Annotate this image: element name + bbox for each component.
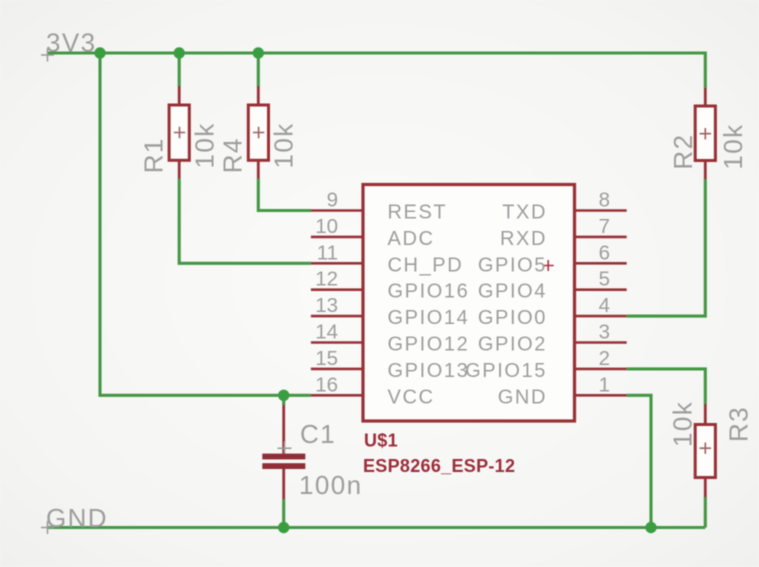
- svg-text:6: 6: [599, 241, 610, 264]
- svg-text:10: 10: [315, 215, 338, 238]
- svg-text:2: 2: [599, 347, 610, 370]
- svg-text:CH_PD: CH_PD: [388, 254, 464, 276]
- svg-text:REST: REST: [388, 202, 448, 224]
- svg-text:R4: R4: [218, 137, 248, 173]
- svg-text:13: 13: [315, 294, 338, 317]
- svg-text:9: 9: [327, 189, 338, 212]
- svg-text:GPIO4: GPIO4: [478, 281, 547, 303]
- svg-text:100n: 100n: [299, 470, 362, 500]
- svg-text:5: 5: [599, 268, 610, 291]
- svg-text:ADC: ADC: [388, 228, 435, 250]
- svg-text:RXD: RXD: [500, 228, 547, 250]
- svg-text:GPIO2: GPIO2: [478, 334, 547, 356]
- svg-text:15: 15: [315, 347, 338, 370]
- svg-text:GPIO5: GPIO5: [478, 254, 547, 276]
- svg-text:1: 1: [599, 373, 610, 396]
- svg-text:GND: GND: [46, 503, 108, 533]
- svg-text:3: 3: [599, 321, 610, 344]
- svg-text:7: 7: [599, 215, 610, 238]
- svg-text:10k: 10k: [668, 401, 698, 447]
- svg-text:R3: R3: [723, 406, 753, 442]
- svg-text:GPIO12: GPIO12: [388, 334, 470, 356]
- svg-text:4: 4: [599, 294, 610, 317]
- svg-text:11: 11: [317, 241, 338, 264]
- svg-text:GPIO0: GPIO0: [478, 307, 547, 329]
- svg-text:R1: R1: [139, 137, 169, 173]
- svg-text:R2: R2: [668, 134, 698, 170]
- svg-text:8: 8: [599, 189, 610, 212]
- svg-text:VCC: VCC: [388, 386, 435, 408]
- svg-text:10k: 10k: [269, 122, 299, 168]
- svg-text:16: 16: [315, 373, 338, 396]
- svg-text:GPIO15: GPIO15: [465, 360, 547, 382]
- svg-text:GND: GND: [498, 386, 547, 408]
- svg-text:GPIO16: GPIO16: [388, 281, 470, 303]
- svg-text:10k: 10k: [190, 122, 220, 168]
- svg-text:14: 14: [315, 321, 338, 344]
- svg-text:ESP8266_ESP-12: ESP8266_ESP-12: [363, 456, 515, 476]
- svg-text:3V3: 3V3: [46, 27, 96, 57]
- svg-text:GPIO13: GPIO13: [388, 360, 470, 382]
- svg-text:10k: 10k: [718, 123, 748, 169]
- svg-text:C1: C1: [300, 419, 336, 449]
- svg-text:GPIO14: GPIO14: [388, 307, 470, 329]
- svg-text:TXD: TXD: [502, 202, 547, 224]
- svg-text:U$1: U$1: [364, 431, 398, 451]
- svg-text:12: 12: [315, 268, 338, 291]
